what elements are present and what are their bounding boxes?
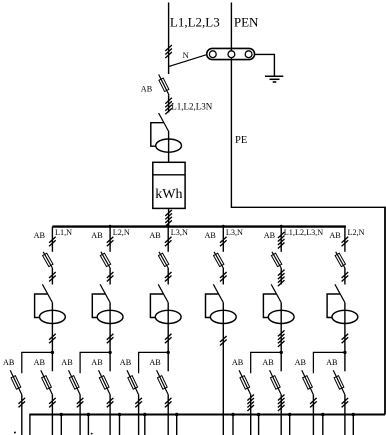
circuit breaker AB feeder 6 main branch (333, 370, 345, 394)
hash 2 conductors feeder 2 main branch (107, 398, 114, 408)
hash 2 conductors feeder 3 main branch (165, 398, 172, 408)
hash 2 conductors feeder 3 lower (165, 334, 172, 344)
svg-text:L1,L2,L3N: L1,L2,L3N (171, 101, 212, 111)
wire feeder 3 meter to branch (167, 303, 169, 372)
hash 2 conductors feeder 4 lower (220, 336, 227, 346)
wire CT to kWh meter (168, 131, 170, 162)
wire feeder 2 main branch outgoing (109, 395, 111, 435)
node feeder 2 tap (109, 225, 112, 252)
wire neutral bus left end drop (29, 414, 31, 435)
svg-text:L3,N: L3,N (171, 228, 188, 237)
svg-text:AB: AB (120, 358, 132, 367)
wire neutral drop 9 (321, 413, 325, 435)
wire feeder 4 breaker to meter (222, 268, 224, 285)
circuit breaker AB feeder 3 (158, 252, 168, 268)
label AB feeder 2 left branch (61, 358, 73, 367)
wire feeder 3 breaker to meter (167, 268, 169, 285)
wire neutral drop 7 (257, 413, 261, 435)
circuit breaker AB feeder 5 main branch (270, 370, 282, 394)
label AB main (141, 84, 153, 93)
circuit breaker AB feeder 6 (335, 252, 345, 268)
hash 2 conductors feeder 2 lower (107, 334, 114, 344)
circuit breaker AB feeder 4 (214, 252, 224, 268)
hash 2 conductors feeder 1 lower (49, 334, 56, 344)
wire L1,L2,L3 incoming riser (168, 3, 170, 75)
svg-text:AB: AB (264, 231, 276, 240)
label AB feeder 1 (34, 231, 46, 240)
node feeder 4 tap (222, 225, 225, 252)
node feeder 3 tap (167, 225, 170, 252)
svg-text:AB: AB (149, 231, 161, 240)
wire feeder 1 left branch outgoing (21, 395, 23, 435)
wire feeder 6 meter to branch (344, 303, 346, 372)
hash 4 conductors feeder 5 main branch (278, 395, 285, 412)
label AB feeder 3 main branch (149, 358, 161, 367)
svg-text:L1,L2,L3,N: L1,L2,L3,N (284, 228, 323, 237)
node feeder 5 tap (280, 225, 283, 252)
hash 2 conductors feeder 2 (107, 237, 114, 247)
circuit breaker AB feeder 5 left branch (239, 370, 251, 394)
svg-text:AB: AB (3, 358, 15, 367)
hash 4 conductors kWh output (165, 210, 172, 227)
speck (91, 433, 93, 435)
wire feeder 6 main branch outgoing (344, 395, 346, 435)
hash 2 conductors feeder 6 lower (342, 334, 349, 344)
svg-text:AB: AB (205, 231, 217, 240)
svg-text:AB: AB (91, 358, 103, 367)
wire feeder 5 breaker to meter (280, 268, 282, 285)
wire neutral drop 10 (352, 413, 356, 435)
hash 4 conductors feeder 5 (278, 232, 285, 249)
label L1,L2,L3,N feeder 5 (284, 228, 323, 237)
ground earth electrode (265, 76, 283, 82)
wire feeder 3 left branch outgoing (138, 395, 140, 435)
hash 4 conductors feeder 5 left branch (247, 395, 254, 412)
label AB feeder 3 (149, 231, 161, 240)
hash 2 conductors feeder 4 mid (220, 272, 227, 282)
circuit breaker AB feeder 3 left branch (127, 370, 139, 394)
svg-text:AB: AB (141, 84, 153, 93)
switch with meter CT top (151, 113, 182, 152)
hash 2 conductors feeder 6 mid (342, 272, 349, 282)
label AB feeder 2 (91, 231, 103, 240)
wire neutral drop 2 (87, 413, 91, 435)
wire feeder 5 branch horizontal (251, 352, 282, 373)
wire neutral drop 4 (143, 413, 147, 435)
busbar neutral bottom (30, 413, 385, 415)
hash 2 conductors feeder 2 left branch (77, 398, 84, 408)
label AB feeder 2 main branch (91, 358, 103, 367)
wire feeder 6 left branch outgoing (312, 395, 314, 435)
wire PE right riser (384, 207, 386, 415)
label AB feeder 6 main branch (326, 358, 338, 367)
hash 4 conductors feeder 5 mid (278, 270, 285, 287)
hash 2 conductors feeder 6 left branch (310, 398, 317, 408)
circuit breaker AB feeder 1 (43, 252, 53, 268)
svg-text:AB: AB (295, 358, 307, 367)
circuit breaker AB feeder 2 main branch (99, 370, 111, 394)
wire neutral drop 6 (231, 413, 235, 435)
circuit breaker AB feeder 1 left branch (10, 370, 22, 394)
label N (183, 50, 189, 60)
wire feeder 1 breaker to meter (51, 268, 53, 285)
circuit breaker AB feeder 1 main branch (41, 370, 53, 394)
label AB feeder 6 left branch (295, 358, 307, 367)
circuit breaker AB feeder 5 (271, 252, 281, 268)
kWh meter (153, 162, 185, 208)
wire feeder 2 meter to branch (109, 303, 111, 372)
wire feeder 5 meter to branch (280, 303, 282, 372)
wire feeder 1 main branch outgoing (51, 395, 53, 435)
svg-text:AB: AB (34, 358, 46, 367)
node feeder 5 branch junction (280, 351, 283, 354)
busbar main (52, 225, 346, 227)
hash 2 conductors feeder 1 mid (49, 272, 56, 282)
circuit breaker AB feeder 2 left branch (69, 370, 81, 394)
node feeder 6 branch junction (343, 351, 346, 354)
hash 3 conductors on L riser (165, 45, 172, 58)
circuit breaker AB feeder 3 main branch (157, 370, 169, 394)
label PE (235, 135, 247, 146)
svg-text:PEN: PEN (234, 15, 259, 30)
svg-text:kWh: kWh (155, 187, 182, 202)
label AB feeder 5 (264, 231, 276, 240)
hash 2 conductors feeder 3 (165, 237, 172, 247)
label PEN (234, 15, 259, 30)
svg-text:L2,N: L2,N (348, 228, 365, 237)
svg-text:L2,N: L2,N (113, 228, 130, 237)
hash 2 conductors feeder 6 main branch (342, 398, 349, 408)
svg-text:N: N (183, 50, 189, 60)
svg-text:AB: AB (232, 358, 244, 367)
label L1,L2,L3 (170, 15, 220, 30)
speck (14, 432, 16, 434)
switch with meter CT feeder 4 (206, 284, 237, 323)
hash 2 conductors feeder 4 (220, 237, 227, 247)
wire PE horizontal (231, 206, 385, 208)
svg-text:AB: AB (61, 358, 73, 367)
label L3,N feeder 3 (171, 228, 188, 237)
label AB feeder 3 left branch (120, 358, 132, 367)
wire AB main to CT (168, 95, 170, 112)
hash 4 conductors feeder 5 lower (278, 330, 285, 347)
wire neutral drop 3 (118, 413, 122, 435)
svg-text:L1,L2,L3: L1,L2,L3 (170, 15, 220, 30)
node feeder 6 tap (344, 227, 346, 252)
svg-text:PE: PE (235, 135, 247, 146)
switch with meter CT feeder 5 (263, 284, 294, 323)
node feeder 2 branch junction (108, 351, 111, 354)
hash 2 conductors feeder 3 mid (165, 272, 172, 282)
switch with meter CT feeder 6 (327, 284, 358, 323)
svg-text:AB: AB (34, 231, 46, 240)
label AB feeder 1 left branch (3, 358, 15, 367)
svg-text:AB: AB (91, 231, 103, 240)
hash 2 conductors feeder 1 main branch (49, 398, 56, 408)
wire feeder 5 left branch outgoing (250, 395, 252, 435)
hash 2 conductors feeder 2 mid (107, 272, 114, 282)
label AB feeder 1 main branch (34, 358, 46, 367)
label L3,N feeder 4 (226, 228, 243, 237)
wire PEN incoming riser (230, 3, 232, 208)
node feeder 3 branch junction (167, 351, 170, 354)
circuit breaker AB feeder 6 left branch (302, 370, 314, 394)
label AB feeder 5 main branch (262, 358, 274, 367)
svg-text:L3,N: L3,N (226, 228, 243, 237)
svg-text:AB: AB (262, 358, 274, 367)
switch with meter CT feeder 3 (150, 284, 181, 323)
svg-text:AB: AB (326, 358, 338, 367)
node feeder 1 branch junction (51, 351, 54, 354)
circuit breaker AB main (159, 75, 169, 96)
wire feeder 5 main branch outgoing (280, 395, 282, 435)
label AB feeder 5 left branch (232, 358, 244, 367)
label L1,L2,L3N (171, 101, 212, 111)
wire feeder 2 left branch outgoing (79, 395, 81, 435)
wire feeder 1 meter to branch (51, 303, 53, 372)
wire N tap diagonal (169, 55, 207, 67)
svg-text:L1,N: L1,N (55, 228, 72, 237)
circuit breaker AB feeder 2 (100, 252, 110, 268)
hash 2 conductors feeder 3 left branch (135, 398, 142, 408)
svg-text:AB: AB (329, 231, 341, 240)
wire neutral drop 1 (60, 413, 64, 435)
node feeder 1 tap (51, 227, 53, 252)
label L1,N feeder 1 (55, 228, 72, 237)
wire feeder 3 branch horizontal (139, 352, 169, 373)
switch with meter CT feeder 2 (92, 284, 123, 323)
svg-text:AB: AB (149, 358, 161, 367)
wire feeder 2 branch horizontal (80, 352, 110, 373)
wire feeder 1 branch horizontal (22, 352, 53, 373)
wire kWh to busbar (168, 208, 170, 227)
hash 2 conductors feeder 1 (49, 237, 56, 247)
wire feeder 4 straight outgoing (222, 303, 224, 435)
wire feeder 3 main branch outgoing (167, 395, 169, 435)
hash 2 conductors feeder 1 left branch (19, 398, 26, 408)
wire feeder 6 branch horizontal (313, 352, 345, 373)
switch with meter CT feeder 1 (35, 284, 66, 323)
label AB feeder 6 (329, 231, 341, 240)
hash 2 conductors feeder 6 (342, 237, 349, 247)
hash 4 conductors below AB main (165, 98, 172, 115)
terminal block PEN splitter (207, 48, 255, 59)
label L2,N feeder 2 (113, 228, 130, 237)
wire feeder 6 breaker to meter (344, 268, 346, 285)
label L2,N feeder 6 (348, 228, 365, 237)
wire terminal block to earth (255, 54, 275, 76)
wire feeder 2 breaker to meter (109, 268, 111, 285)
wire neutral drop 5 (175, 413, 179, 435)
label AB feeder 4 (205, 231, 217, 240)
wire neutral drop 8 (288, 413, 292, 435)
